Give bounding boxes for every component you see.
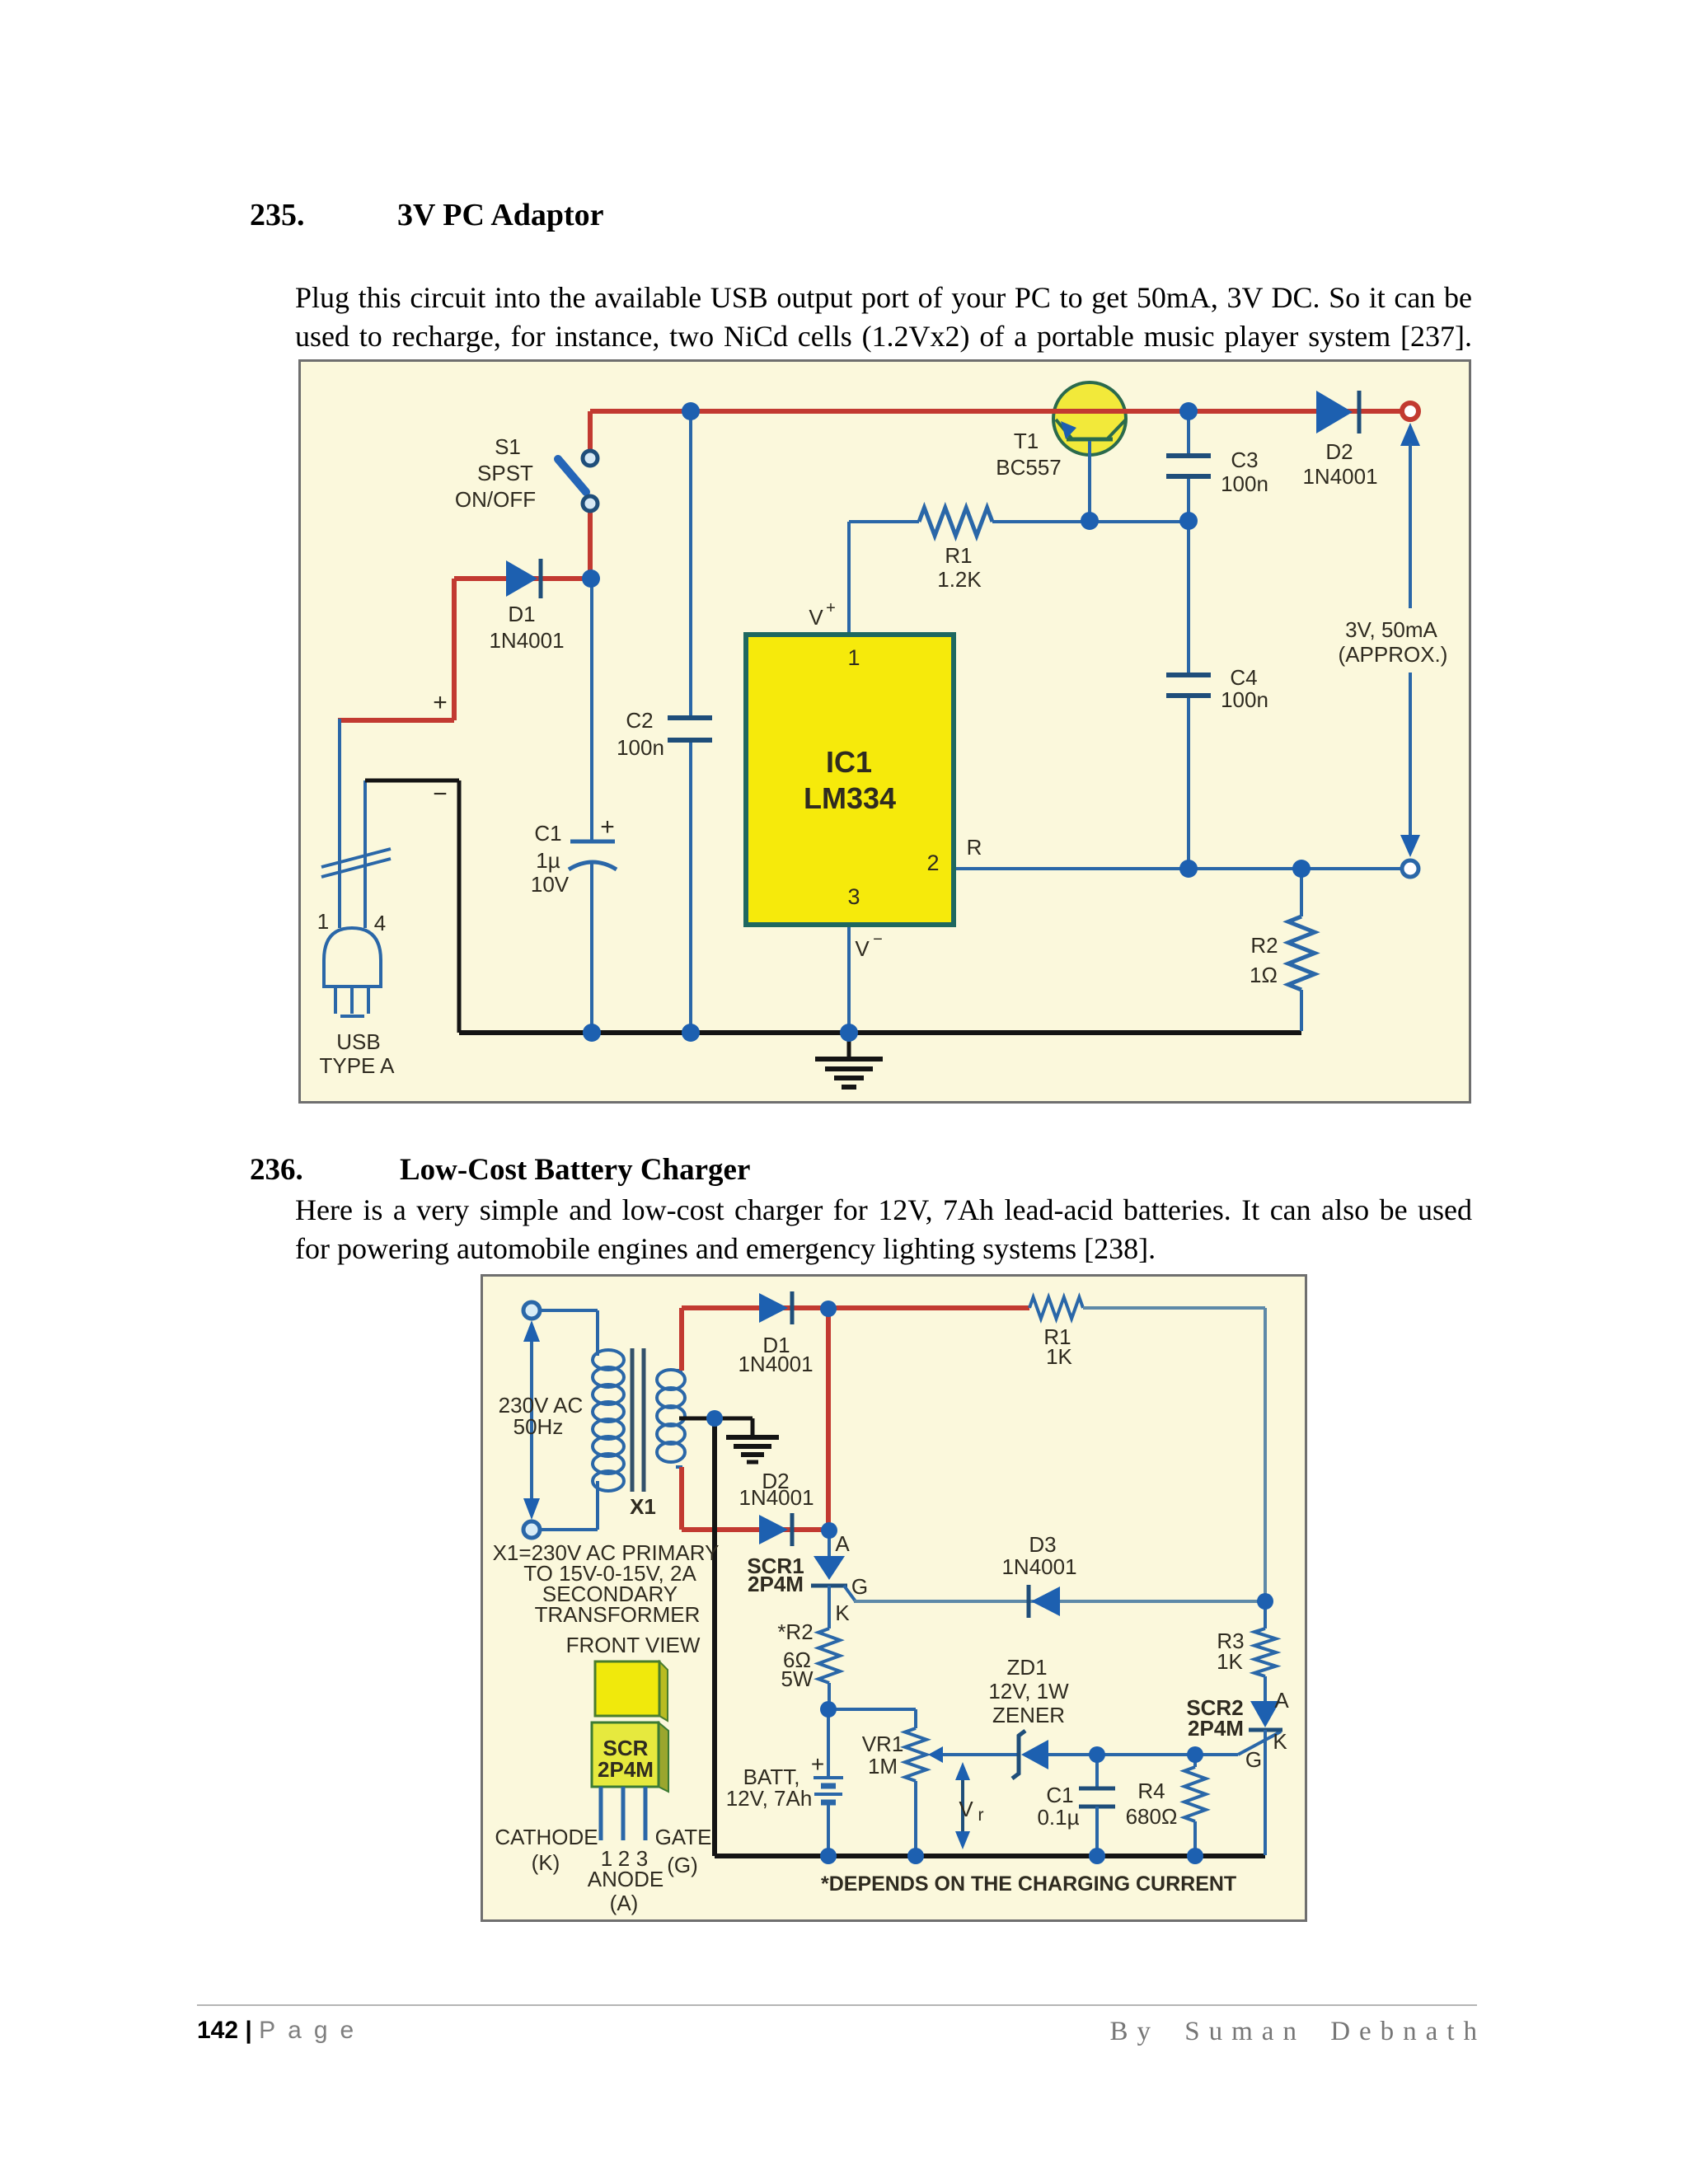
- wire: black bottom rail: [459, 1030, 1301, 1035]
- node: pin2 / R2: [1292, 860, 1311, 878]
- svg-text:FRONT VIEW: FRONT VIEW: [566, 1633, 701, 1657]
- node: rail C1: [1089, 1848, 1105, 1864]
- svg-text:+: +: [600, 813, 615, 841]
- wire break marks: [321, 849, 391, 877]
- thyristor SCR1: [811, 1530, 856, 1629]
- label C1 1u 10V: [531, 821, 570, 897]
- label D2 1N4001: [738, 1469, 814, 1510]
- svg-text:V: V: [959, 1797, 973, 1821]
- node: top rail / C2: [682, 402, 700, 420]
- wire: IC pin3 to ground: [847, 925, 851, 1033]
- svg-text:K: K: [1273, 1729, 1287, 1754]
- label ZD1 12V 1W ZENER: [988, 1655, 1069, 1727]
- svg-text:R4: R4: [1137, 1779, 1165, 1803]
- wire: C1 branch: [590, 579, 593, 1033]
- resistor R2 star: [818, 1629, 840, 1709]
- wire: IC pin2 row: [954, 867, 1401, 870]
- svg-text:1Ω: 1Ω: [1250, 963, 1278, 987]
- svg-text:−: −: [873, 930, 883, 949]
- label SCR2 2P4M: [1186, 1695, 1244, 1741]
- wire: red D2 row: [682, 1527, 829, 1532]
- label R pin2: [967, 835, 982, 860]
- arrow Vr: [955, 1762, 970, 1849]
- svg-text:R2: R2: [1250, 933, 1278, 958]
- node: D1 out: [820, 1301, 837, 1317]
- svg-text:ON/OFF: ON/OFF: [455, 487, 536, 512]
- label C1 0.1u: [1037, 1783, 1079, 1830]
- svg-text:−: −: [433, 780, 448, 808]
- svg-text:12V, 7Ah: 12V, 7Ah: [726, 1786, 813, 1811]
- svg-text:IC1: IC1: [826, 745, 872, 779]
- node: R4 top: [1187, 1746, 1203, 1763]
- schematic 2: low-cost battery charger: [481, 1274, 1307, 1922]
- label BATT 12V 7Ah: [726, 1765, 813, 1811]
- svg-text:R1: R1: [945, 543, 972, 568]
- label R3 1K: [1217, 1629, 1245, 1674]
- label R2 1ohm: [1250, 933, 1278, 987]
- label usb pins: [317, 909, 386, 935]
- svg-text:C1: C1: [1046, 1783, 1073, 1807]
- terminal bottom-left: [523, 1521, 540, 1538]
- capacitor C4: [1166, 675, 1211, 696]
- diode D3: [1029, 1585, 1060, 1618]
- node: rail battery: [820, 1848, 837, 1864]
- svg-text:50Hz: 50Hz: [513, 1414, 564, 1439]
- heading 235: [250, 199, 604, 231]
- svg-text:USB: USB: [336, 1029, 380, 1054]
- svg-text:V: V: [855, 936, 870, 961]
- svg-text:1µ: 1µ: [536, 848, 560, 873]
- svg-text:GATE: GATE: [655, 1825, 712, 1849]
- svg-text:G: G: [851, 1574, 868, 1599]
- diode D1: [506, 559, 541, 598]
- node: top rail / C3: [1179, 402, 1198, 420]
- node: R2 bottom: [820, 1701, 837, 1718]
- transformer X1 secondary winding: [657, 1370, 685, 1467]
- label Vr: [959, 1797, 983, 1825]
- capacitor C2: [668, 718, 712, 740]
- label plus minus usb: [433, 689, 448, 808]
- diode D1: [759, 1291, 792, 1324]
- wire: USB pin4 lead: [363, 780, 367, 928]
- svg-text:1N4001: 1N4001: [738, 1485, 814, 1510]
- node: rail R4: [1187, 1848, 1203, 1864]
- label A G K SCR1: [835, 1531, 868, 1625]
- wire: USB pin1 lead: [338, 719, 341, 928]
- svg-text:K: K: [835, 1601, 850, 1625]
- potentiometer VR1: [905, 1728, 1019, 1856]
- label D3 1N4001: [1001, 1532, 1076, 1579]
- node: pin2 / C4: [1179, 860, 1198, 878]
- svg-text:3: 3: [847, 884, 860, 909]
- node: D2 out: [821, 1522, 837, 1539]
- label depends note: [821, 1872, 1236, 1896]
- svg-text:1N4001: 1N4001: [1001, 1554, 1076, 1579]
- wire: black bottom rail: [715, 1854, 1265, 1858]
- node: base / R1: [1081, 512, 1099, 530]
- label 230V AC 50Hz: [499, 1393, 584, 1439]
- node: D3 right: [1257, 1593, 1273, 1610]
- svg-text:0.1µ: 0.1µ: [1037, 1805, 1079, 1830]
- svg-text:+: +: [811, 1751, 824, 1777]
- label R1 1K: [1043, 1324, 1072, 1369]
- svg-text:100n: 100n: [1221, 687, 1268, 712]
- label C3 100n: [1221, 448, 1268, 496]
- svg-text:1M: 1M: [868, 1754, 898, 1779]
- footer right: By Suman Debnath: [1110, 2017, 1486, 2047]
- svg-text:2P4M: 2P4M: [1188, 1716, 1244, 1741]
- terminal top-left: [523, 1302, 540, 1319]
- svg-text:(G): (G): [667, 1853, 698, 1877]
- svg-text:D1: D1: [508, 602, 535, 626]
- svg-text:D3: D3: [1029, 1532, 1056, 1557]
- label SCR1 2P4M: [747, 1554, 804, 1596]
- label D1 1N4001: [738, 1333, 813, 1376]
- resistor R1: [919, 508, 992, 536]
- svg-text:SPST: SPST: [477, 461, 533, 485]
- label R1 1.2K: [937, 543, 982, 592]
- label X1 transformer spec: [493, 1540, 720, 1627]
- label V+: [809, 599, 836, 630]
- transformer X1 primary winding: [593, 1310, 624, 1530]
- wire: black return vertical: [712, 1418, 717, 1856]
- op-amp/IC U1 IC1 LM334: [746, 635, 954, 925]
- label CATHODE GATE pins: [495, 1825, 711, 1915]
- svg-text:+: +: [826, 599, 836, 617]
- node: rail / C2: [682, 1024, 700, 1042]
- svg-text:2P4M: 2P4M: [598, 1757, 654, 1782]
- thyristor SCR2: [1249, 1676, 1282, 1855]
- label D1 1N4001: [489, 602, 564, 653]
- label R4 680ohm: [1126, 1779, 1178, 1829]
- SCR 2P4M package front view: [592, 1661, 668, 1792]
- svg-text:1: 1: [847, 645, 860, 670]
- wire: red D1 row: [454, 576, 590, 581]
- svg-text:V: V: [809, 605, 823, 630]
- svg-text:TRANSFORMER: TRANSFORMER: [535, 1602, 701, 1627]
- paragraph 2: [295, 1191, 1472, 1268]
- mains arrow 230V: [523, 1320, 540, 1520]
- wire: center tap black: [679, 1417, 753, 1421]
- label VR1 1M: [862, 1732, 904, 1779]
- battery BATT: [814, 1709, 843, 1856]
- output arrow: [1400, 423, 1420, 857]
- svg-text:100n: 100n: [617, 735, 664, 760]
- svg-text:1N4001: 1N4001: [489, 628, 564, 653]
- wire: red switch top stub: [588, 411, 593, 451]
- svg-text:1.2K: 1.2K: [937, 567, 982, 592]
- output terminal bottom: [1402, 860, 1418, 877]
- svg-text:C1: C1: [534, 821, 561, 846]
- node: rail / C1: [583, 1024, 601, 1042]
- svg-text:S1: S1: [495, 434, 521, 459]
- wire: C4 branch: [1187, 522, 1190, 869]
- wire: R1 to right corner: [1083, 1308, 1265, 1601]
- svg-text:VR1: VR1: [862, 1732, 904, 1756]
- svg-text:(APPROX.): (APPROX.): [1339, 642, 1448, 667]
- node: rail VR1: [907, 1848, 924, 1864]
- svg-text:1N4001: 1N4001: [738, 1352, 813, 1376]
- svg-text:BC557: BC557: [996, 455, 1062, 480]
- svg-text:+: +: [433, 689, 448, 716]
- diode D2: [1316, 391, 1359, 434]
- svg-text:12V, 1W: 12V, 1W: [988, 1679, 1069, 1704]
- svg-text:C4: C4: [1230, 665, 1257, 690]
- svg-text:2: 2: [926, 851, 939, 875]
- wire: gate row SCR1 to D3: [854, 1600, 1265, 1603]
- wire: primary top: [540, 1309, 598, 1312]
- node: D1 / S1 / C1: [582, 569, 600, 588]
- label C4 100n: [1221, 665, 1268, 712]
- transistor T1: [1053, 382, 1126, 455]
- paragraph 1: [295, 279, 1472, 356]
- capacitor C3: [1166, 456, 1211, 476]
- svg-text:*R2: *R2: [777, 1619, 813, 1644]
- svg-text:T1: T1: [1014, 429, 1039, 453]
- svg-text:A: A: [1274, 1688, 1289, 1713]
- svg-text:680Ω: 680Ω: [1126, 1804, 1178, 1829]
- svg-text:ZD1: ZD1: [1006, 1655, 1047, 1680]
- capacitor C1: [1079, 1755, 1115, 1856]
- label V-: [855, 930, 883, 961]
- label X1: [630, 1494, 656, 1519]
- wire: R2 to VR1 row: [828, 1709, 916, 1728]
- node: zener C1: [1089, 1746, 1105, 1763]
- label *R2 6ohm 5W: [777, 1619, 814, 1691]
- footer rule: [197, 2004, 1477, 2006]
- wire: red vertical D1 to D2: [826, 1308, 831, 1530]
- wire: C3 branch: [1187, 411, 1190, 522]
- wire: black negative path: [365, 780, 459, 1033]
- svg-text:(A): (A): [610, 1891, 639, 1915]
- svg-text:2P4M: 2P4M: [748, 1572, 804, 1596]
- svg-text:ANODE: ANODE: [588, 1867, 663, 1891]
- svg-text:CATHODE: CATHODE: [495, 1825, 598, 1849]
- diode D2: [759, 1513, 792, 1546]
- svg-text:TYPE A: TYPE A: [319, 1053, 395, 1078]
- wire: red to USB plus: [338, 579, 454, 720]
- label C2 100n: [617, 708, 664, 760]
- svg-text:1K: 1K: [1046, 1344, 1072, 1369]
- svg-text:A: A: [835, 1531, 850, 1556]
- heading 236: [250, 1155, 750, 1186]
- node: center tap: [706, 1410, 723, 1427]
- svg-text:*DEPENDS ON THE CHARGING CURRE: *DEPENDS ON THE CHARGING CURRENT: [821, 1872, 1236, 1896]
- node: rail / pin3: [840, 1024, 858, 1042]
- svg-text:r: r: [978, 1806, 984, 1825]
- transformer X1 core: [632, 1348, 644, 1492]
- svg-text:3V, 50mA: 3V, 50mA: [1345, 617, 1437, 642]
- ground (center tap): [726, 1418, 779, 1462]
- wire: R2 branch: [1300, 869, 1303, 1031]
- wire: red secondary bottom: [679, 1467, 684, 1530]
- wire: red top rail to R1: [682, 1305, 1029, 1310]
- SCR package leads: [601, 1787, 645, 1840]
- footer left: 142 | Page: [197, 2017, 366, 2045]
- label 3V 50mA APPROX: [1339, 617, 1448, 667]
- svg-text:4: 4: [374, 911, 386, 935]
- svg-text:G: G: [1245, 1747, 1262, 1772]
- wire: red positive top rail: [590, 409, 1400, 414]
- svg-text:C2: C2: [626, 708, 653, 733]
- label A K G SCR2: [1245, 1688, 1289, 1772]
- zener ZD1: [1012, 1731, 1097, 1779]
- wire: C2 branch: [689, 411, 692, 1033]
- output terminal top: [1402, 403, 1418, 419]
- wire: zener row to gate: [1097, 1732, 1281, 1755]
- resistor R3: [1254, 1601, 1276, 1676]
- capacitor C1 (polarized): [569, 813, 617, 869]
- svg-text:R: R: [967, 835, 982, 860]
- resistor R2: [1288, 916, 1315, 990]
- svg-text:(K): (K): [532, 1850, 560, 1875]
- switch S1: [558, 451, 598, 511]
- label S1 SPST ON/OFF: [455, 434, 536, 512]
- svg-text:5W: 5W: [781, 1666, 814, 1691]
- svg-text:ZENER: ZENER: [992, 1703, 1065, 1727]
- resistor R4: [1184, 1755, 1206, 1856]
- svg-text:10V: 10V: [531, 872, 570, 897]
- svg-text:LM334: LM334: [804, 781, 896, 815]
- wire: IC pin1 net to R1: [849, 522, 1189, 635]
- wire: T1 base: [1088, 441, 1091, 522]
- label battery plus: [811, 1751, 824, 1777]
- label USB TYPE A: [319, 1029, 395, 1078]
- resistor R1: [1029, 1297, 1083, 1319]
- svg-text:100n: 100n: [1221, 471, 1268, 496]
- svg-text:D2: D2: [1325, 439, 1353, 464]
- schematic 1: 3V PC adaptor: [298, 359, 1471, 1104]
- wire: red switch bottom stub: [588, 510, 593, 579]
- label T1 BC557: [996, 429, 1062, 480]
- wire: primary bottom: [540, 1528, 598, 1531]
- svg-text:1N4001: 1N4001: [1302, 464, 1377, 489]
- svg-text:C3: C3: [1231, 448, 1258, 472]
- svg-text:1: 1: [317, 909, 329, 934]
- svg-text:X1: X1: [630, 1494, 656, 1519]
- label D2 1N4001: [1302, 439, 1377, 489]
- node: R1 row / C3C4: [1179, 512, 1198, 530]
- wire: red secondary top: [679, 1308, 684, 1371]
- label FRONT VIEW: [566, 1633, 701, 1657]
- USB type A plug: [324, 928, 381, 1016]
- svg-text:1K: 1K: [1217, 1649, 1243, 1674]
- ground: [815, 1033, 883, 1087]
